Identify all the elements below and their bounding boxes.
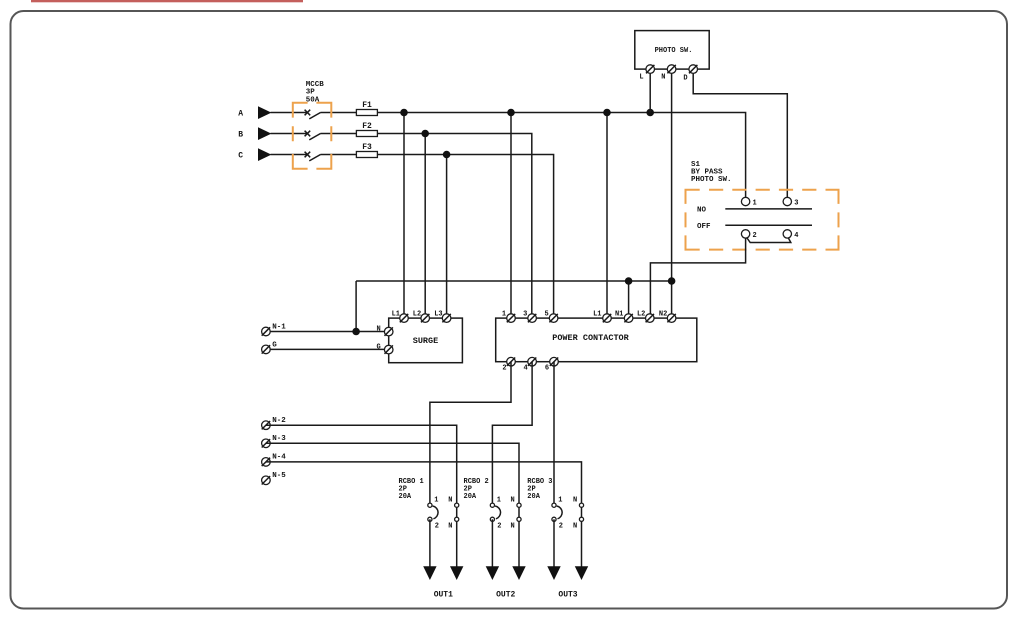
- svg-text:F2: F2: [362, 122, 372, 131]
- svg-text:L: L: [639, 74, 643, 82]
- svg-text:D: D: [683, 75, 687, 83]
- RCBO2 pole1 bottom contact: [490, 517, 494, 521]
- svg-text:N: N: [376, 326, 380, 334]
- wire neutral drop to contactor N1: [628, 281, 630, 318]
- svg-text:B: B: [238, 130, 243, 139]
- junction on A at surge L1: [400, 109, 408, 117]
- breaker contact X pole C: [305, 152, 311, 158]
- junction on A at contactor L1: [603, 109, 611, 117]
- surge terminal L3: [442, 314, 451, 323]
- terminal N-5: [262, 476, 271, 485]
- breaker blade pole A: [309, 113, 320, 119]
- output arrow OUT1 N: [450, 566, 463, 580]
- wire phase B to contactor terminal 3: [377, 134, 531, 319]
- svg-text:1: 1: [434, 497, 438, 505]
- terminal N-1: [262, 327, 271, 336]
- power contactor box: [496, 318, 697, 362]
- svg-text:6: 6: [545, 364, 549, 372]
- RCBO1 poleN bottom contact: [455, 517, 459, 521]
- junction on A at photo sw L: [646, 109, 654, 117]
- wire breaker to fuse F2: [321, 133, 357, 135]
- terminal N-3: [262, 439, 271, 448]
- breaker MCCB value label: [306, 81, 325, 105]
- terminal photo N: [667, 65, 676, 74]
- wire C to breaker: [271, 154, 308, 156]
- contactor terminal L1: [603, 314, 612, 323]
- svg-text:3: 3: [523, 310, 527, 318]
- svg-text:2: 2: [502, 364, 506, 372]
- RCBO1 pole1 top contact: [428, 503, 432, 507]
- surge terminal G: [384, 345, 393, 354]
- svg-text:20A: 20A: [527, 493, 540, 501]
- output arrow OUT2 L: [486, 566, 499, 580]
- RCBO1 poleN top contact: [455, 503, 459, 507]
- svg-text:OUT1: OUT1: [434, 590, 453, 599]
- svg-text:N-1: N-1: [272, 323, 286, 331]
- wire neutral riser: [355, 281, 357, 332]
- wire tap to surge L2: [424, 134, 426, 319]
- contactor terminal 6: [550, 357, 559, 366]
- breaker blade pole C: [309, 155, 320, 161]
- breaker MCCB dashed outline: [293, 103, 332, 169]
- wire RCBO2 pole1 to OUT2: [491, 519, 493, 566]
- S1 terminal 1: [741, 197, 749, 205]
- wire B to breaker: [271, 133, 308, 135]
- wire bypass 2 to contactor L2: [650, 234, 745, 318]
- wire tap to contactor L1: [606, 113, 608, 319]
- svg-text:N-2: N-2: [272, 417, 286, 425]
- input arrow B: [258, 127, 271, 140]
- surge terminal L2: [421, 314, 430, 323]
- wire tap to surge L1: [403, 113, 405, 319]
- wire tap to surge L3: [446, 155, 448, 319]
- S1 terminal 2: [741, 230, 749, 238]
- output arrow OUT2 N: [512, 566, 525, 580]
- svg-text:N1: N1: [615, 310, 623, 318]
- RCBO2 poleN top contact: [517, 503, 521, 507]
- svg-text:L1: L1: [593, 310, 601, 318]
- S1 blade 2-4: [746, 236, 791, 243]
- S1 NO contact bar: [725, 208, 812, 210]
- svg-text:MCCB: MCCB: [306, 81, 325, 89]
- svg-text:F1: F1: [362, 101, 372, 110]
- wire RCBO3 pole1 to OUT3: [553, 519, 555, 566]
- svg-text:N-5: N-5: [272, 472, 286, 480]
- junction neutral bus N2: [668, 277, 676, 285]
- svg-text:OUT3: OUT3: [558, 590, 577, 599]
- svg-text:A: A: [238, 109, 243, 118]
- wire phase C to contactor terminal 5: [377, 155, 553, 319]
- svg-text:N: N: [573, 497, 577, 505]
- svg-text:POWER CONTACTOR: POWER CONTACTOR: [552, 333, 629, 343]
- wire phase A bus to bypass terminal 1: [377, 113, 745, 202]
- RCBO1 pole1 arc: [433, 506, 438, 519]
- contactor terminal N1: [624, 314, 633, 323]
- surge terminal L1: [400, 314, 409, 323]
- RCBO3 poleN bottom contact: [579, 517, 583, 521]
- svg-text:G: G: [376, 344, 380, 352]
- surge protector box: [389, 318, 463, 363]
- RCBO3 pole1 top contact: [552, 503, 556, 507]
- wire neutral drop to contactor N2: [671, 281, 673, 318]
- terminal photo L: [646, 65, 655, 74]
- RCBO2 pole1 top contact: [490, 503, 494, 507]
- fuse F3: [356, 152, 377, 158]
- svg-text:L2: L2: [413, 310, 421, 318]
- svg-text:C: C: [238, 151, 243, 160]
- output arrow OUT1 L: [423, 566, 436, 580]
- contactor terminal 5: [549, 314, 558, 323]
- svg-text:SURGE: SURGE: [413, 336, 439, 346]
- svg-text:OUT2: OUT2: [496, 590, 515, 599]
- S1 OFF contact bar: [725, 224, 812, 226]
- RCBO1 pole1 bottom contact: [428, 517, 432, 521]
- wire RCBO1 pole1 to OUT1: [429, 519, 431, 566]
- svg-text:N2: N2: [659, 310, 667, 318]
- contactor terminal 3: [528, 314, 537, 323]
- wire contactor 6 to RCBO3: [553, 362, 555, 506]
- svg-text:N: N: [510, 497, 514, 505]
- breaker RCBO 3 label: [527, 478, 552, 501]
- svg-text:1: 1: [558, 497, 562, 505]
- svg-text:N: N: [448, 497, 452, 505]
- breaker RCBO 2 label: [464, 478, 489, 501]
- surge terminal N: [384, 327, 393, 336]
- RCBO3 poleN top contact: [579, 503, 583, 507]
- wire N-4 to RCBO3 N: [266, 462, 582, 567]
- output arrow OUT3 L: [547, 566, 560, 580]
- svg-text:L3: L3: [434, 310, 442, 318]
- wire contactor 2 to RCBO1: [430, 362, 511, 506]
- contactor terminal 1: [507, 314, 516, 323]
- breaker contact X pole B: [305, 131, 311, 137]
- wire N-2 to RCBO1 N: [266, 425, 457, 566]
- wire breaker to fuse F3: [321, 154, 357, 156]
- svg-text:20A: 20A: [464, 493, 477, 501]
- junction on C at surge L3: [443, 151, 451, 159]
- contactor terminal 2: [507, 357, 516, 366]
- contactor terminal N2: [667, 314, 676, 323]
- junction neutral bus N1: [625, 277, 633, 285]
- svg-text:N: N: [510, 523, 514, 531]
- junction on B at surge L2: [421, 130, 429, 138]
- RCBO2 poleN bottom contact: [517, 517, 521, 521]
- input arrow C: [258, 148, 271, 161]
- svg-text:N-4: N-4: [272, 454, 286, 462]
- wire neutral bus: [356, 280, 671, 282]
- breaker RCBO 1 label: [399, 478, 424, 501]
- junction neutral at N-1: [352, 328, 360, 336]
- terminal G: [262, 345, 271, 354]
- wire N-1 to surge N: [266, 331, 389, 333]
- wire contactor 4 to RCBO2: [492, 362, 532, 506]
- svg-text:2: 2: [497, 523, 501, 531]
- svg-text:2: 2: [435, 523, 439, 531]
- svg-text:PHOTO SW.: PHOTO SW.: [655, 47, 693, 55]
- svg-text:N: N: [448, 523, 452, 531]
- svg-text:1: 1: [753, 200, 757, 208]
- svg-text:F3: F3: [362, 143, 372, 152]
- wire tap to contactor 1: [510, 113, 512, 319]
- svg-text:L1: L1: [392, 310, 400, 318]
- terminal N-4: [262, 458, 271, 467]
- switch S1 dashed outline: [686, 190, 839, 250]
- input arrow A: [258, 106, 271, 119]
- svg-text:1: 1: [502, 310, 506, 318]
- svg-text:2: 2: [559, 523, 563, 531]
- wire photo N to neutral bus: [671, 69, 673, 281]
- red title underline: [31, 0, 303, 2]
- svg-text:20A: 20A: [399, 493, 412, 501]
- contactor terminal L2: [646, 314, 655, 323]
- svg-text:3: 3: [794, 200, 798, 208]
- svg-text:N: N: [573, 523, 577, 531]
- output arrow OUT3 N: [575, 566, 588, 580]
- junction on A at contactor 1: [507, 109, 515, 117]
- svg-text:N-3: N-3: [272, 435, 286, 443]
- terminal photo D: [689, 65, 698, 74]
- svg-text:4: 4: [523, 364, 527, 372]
- S1 terminal 3: [783, 197, 791, 205]
- svg-text:L2: L2: [637, 310, 645, 318]
- svg-text:OFF: OFF: [697, 223, 711, 231]
- svg-text:PHOTO SW.: PHOTO SW.: [691, 176, 732, 184]
- svg-text:NO: NO: [697, 207, 707, 215]
- wire G to surge G: [266, 348, 389, 350]
- RCBO3 pole1 arc: [557, 506, 562, 519]
- RCBO3 pole1 bottom contact: [552, 517, 556, 521]
- svg-text:4: 4: [794, 232, 798, 240]
- terminal N-2: [262, 421, 271, 430]
- breaker blade pole B: [309, 134, 320, 140]
- contactor terminal 4: [528, 357, 537, 366]
- breaker contact X pole A: [305, 110, 311, 116]
- wire photo L to phase A: [649, 69, 651, 112]
- wire A to breaker: [271, 112, 308, 114]
- svg-text:G: G: [272, 341, 277, 349]
- S1 terminal 4: [783, 230, 791, 238]
- svg-text:5: 5: [544, 310, 548, 318]
- fuse F1: [356, 110, 377, 116]
- svg-text:1: 1: [497, 497, 501, 505]
- photo switch box: [635, 31, 709, 70]
- fuse F2: [356, 131, 377, 137]
- RCBO2 pole1 arc: [495, 506, 500, 519]
- wire breaker to fuse F1: [321, 112, 357, 114]
- svg-text:N: N: [661, 74, 665, 82]
- wire photo D to bypass terminal 3: [693, 69, 787, 201]
- svg-text:2: 2: [753, 232, 757, 240]
- switch S1 name label: [691, 161, 732, 184]
- wire N-3 to RCBO2 N: [266, 443, 519, 566]
